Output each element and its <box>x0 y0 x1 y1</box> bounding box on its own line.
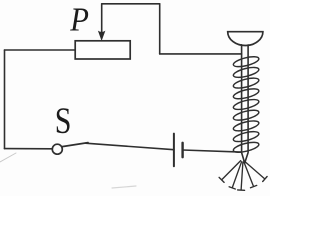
svg-text:P: P <box>69 0 89 38</box>
wire left vertical <box>4 50 6 149</box>
scan artifact bottom middle <box>112 186 136 188</box>
switch S blade <box>62 143 88 147</box>
arrowhead of slider P <box>98 31 106 41</box>
battery short plate <box>181 143 183 157</box>
small nail 3 (middle) <box>238 162 245 190</box>
svg-text:S: S <box>55 101 72 142</box>
wire bottom left to switch <box>5 148 53 150</box>
scan artifact bottom left <box>0 153 16 162</box>
wire right vertical drop <box>159 4 161 54</box>
nail shaft right edge <box>245 45 248 163</box>
small nail 1 (far left) <box>219 161 241 183</box>
nail shaft left edge <box>242 45 245 163</box>
wire top horizontal <box>102 3 160 5</box>
wire rheostat left <box>5 49 76 51</box>
wire slider arrow stem <box>101 4 103 33</box>
switch S pivot circle <box>52 144 62 154</box>
resistor (rheostat) P box <box>75 41 130 59</box>
coil winding around nail <box>232 55 259 155</box>
small nail 5 (far right) <box>244 161 267 182</box>
small nail 4 <box>244 162 257 188</box>
battery long plate <box>173 134 175 167</box>
wire to coil top <box>160 53 242 55</box>
nail head cap <box>228 32 263 46</box>
small nail 2 <box>229 162 242 189</box>
wire switch to battery <box>86 143 174 150</box>
wire battery to coil bottom <box>183 150 241 152</box>
